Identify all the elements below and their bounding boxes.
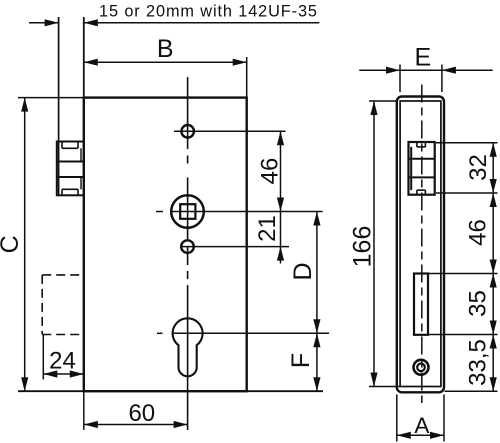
latch front view [409, 142, 435, 195]
dim 24 arrowheads [43, 370, 57, 377]
witness line for 24 [42, 335, 44, 380]
dim A line + witnesses [397, 434, 444, 436]
witness line latch top [436, 142, 498, 144]
wire: case right edge extension above [246, 57, 248, 98]
euro profile cylinder hole [173, 318, 203, 376]
svg-text:D: D [289, 262, 317, 280]
dim 35 arrowheads [490, 274, 497, 288]
spindle square hole [180, 204, 195, 219]
svg-text:32: 32 [465, 154, 492, 181]
dim 46 line [280, 131, 282, 211]
dim 33,5 arrowheads [490, 335, 497, 349]
dim D line [316, 212, 318, 334]
deadbolt cutout [414, 274, 428, 335]
witness line latch bottom [436, 192, 498, 194]
wire: case top edge extension left [18, 97, 84, 99]
svg-text:166: 166 [349, 226, 377, 268]
lock case body (side view) [84, 98, 247, 392]
svg-text:46: 46 [256, 158, 283, 185]
faceplate front line [58, 17, 60, 196]
dim C line [24, 98, 26, 392]
svg-text:21: 21 [254, 215, 281, 242]
dim 24 line [43, 373, 84, 375]
center tick spindle left [156, 211, 163, 213]
dim E arrowheads [386, 67, 400, 74]
dim A arrowheads [397, 432, 411, 439]
center tick cylinder left [157, 332, 163, 334]
dim 32 arrowheads [490, 143, 497, 157]
dim B arrowheads [84, 59, 98, 66]
upper fixing hole [181, 125, 194, 138]
wire: case left edge extension below [83, 391, 85, 430]
dim 60 line [84, 424, 188, 426]
wire: case left edge extension above [83, 17, 85, 98]
witness line cylinder axis [172, 332, 329, 334]
svg-text:C: C [0, 235, 24, 253]
svg-text:24: 24 [49, 348, 76, 375]
wire: case bottom edge long line [18, 390, 323, 392]
svg-text:46: 46 [464, 219, 491, 246]
svg-text:A: A [414, 413, 429, 438]
dim D arrowheads [313, 212, 320, 226]
svg-text:B: B [157, 35, 174, 63]
dim B line [84, 61, 247, 63]
svg-text:35: 35 [464, 290, 491, 317]
dim 60 arrowheads [84, 421, 98, 428]
dim E lines + witnesses [359, 69, 492, 71]
svg-text:33,5: 33,5 [465, 339, 492, 386]
dim F line [316, 333, 318, 391]
witness line lower hole [181, 246, 289, 248]
dim 15or20 lines [29, 22, 59, 24]
vertical center line left view [187, 77, 189, 149]
dim 21 arrowhead [277, 247, 284, 261]
witness line faceplate bottom [445, 390, 498, 392]
svg-text:60: 60 [128, 400, 155, 427]
center line right view [421, 85, 423, 404]
dim 46 arrowheads [277, 131, 284, 145]
dim F arrowheads [313, 333, 320, 347]
svg-text:15 or 20mm with 142UF-35: 15 or 20mm with 142UF-35 [99, 3, 318, 21]
dim 166 line + witnesses [373, 101, 375, 387]
right column dim line [492, 143, 494, 392]
witness line bolt cutout bottom [429, 334, 498, 336]
dim 21 line [280, 212, 282, 247]
witness line upper hole [174, 130, 286, 132]
dim C arrowheads [21, 98, 28, 112]
latch bolt (side view) [57, 142, 84, 196]
screw hole [414, 360, 429, 375]
spindle follower circle [171, 195, 204, 228]
svg-text:F: F [287, 353, 315, 368]
faceplate inner [400, 101, 441, 387]
dashed optional box [42, 274, 84, 276]
lower fixing hole [181, 240, 194, 253]
witness line bolt cutout top [429, 273, 498, 275]
dim 166 arrowheads [370, 101, 377, 115]
witness line spindle axis [171, 211, 323, 213]
dim 15or20 arrowheads [45, 19, 59, 26]
svg-text:E: E [415, 44, 432, 72]
faceplate outer [397, 97, 444, 393]
dim 46 right arrowheads [490, 193, 497, 207]
